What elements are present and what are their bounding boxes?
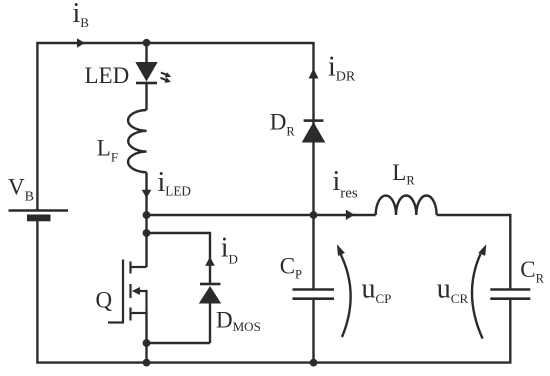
wire D_MOS branch top [147, 233, 211, 257]
mosfet channel segment bottom [129, 308, 131, 321]
wire inductor to node [145, 172, 147, 215]
battery V_B [9, 211, 69, 222]
inductor L_R coil [376, 195, 437, 215]
voltage arrow u_CR arrowhead [478, 244, 486, 256]
capacitor C_P [293, 290, 335, 299]
inductor L_F coil [128, 110, 146, 172]
mosfet body arrow [132, 287, 140, 295]
voltage arrow u_CP arrowhead [337, 244, 345, 256]
LED light emission arrow 2 [161, 78, 171, 83]
current arrow i_B on top wire [77, 38, 85, 47]
mosfet channel segment top [129, 262, 131, 274]
svg-text:iLED: iLED [158, 167, 191, 198]
svg-text:uCP: uCP [362, 274, 392, 307]
wire D_MOS branch vertical upper [209, 257, 211, 284]
diode D_MOS triangle [199, 286, 221, 304]
junction node dot mosfet source bottom [143, 339, 151, 347]
wire node to mosfet drain [145, 215, 147, 267]
wire D_MOS branch bottom [147, 342, 211, 344]
svg-text:CP: CP [280, 254, 302, 282]
wire C_P branch lower [312, 299, 314, 363]
junction node dot top of LED branch [143, 39, 151, 47]
svg-text:ires: ires [333, 166, 358, 202]
wire D_R branch vertical [312, 42, 314, 215]
svg-text:LR: LR [392, 160, 415, 188]
wire mosfet source to bottom [145, 313, 147, 363]
mosfet gate plate [122, 260, 124, 324]
mosfet source lead [131, 312, 147, 314]
LED diode triangle [135, 62, 157, 82]
battery long plate [9, 209, 69, 211]
junction node dot bottom wire left [143, 359, 151, 367]
svg-text:iB: iB [73, 0, 90, 30]
junction node dot D_MOS tee [143, 229, 151, 237]
diode D_MOS cathode bar [200, 283, 221, 286]
svg-text:DMOS: DMOS [216, 308, 261, 335]
wire C_P branch upper [312, 215, 314, 289]
current arrow i_res on middle wire [346, 210, 355, 220]
mosfet drain lead [131, 266, 147, 268]
svg-text:LF: LF [97, 135, 118, 164]
svg-text:LED: LED [85, 63, 130, 88]
svg-text:Q: Q [96, 288, 113, 313]
svg-text:iD: iD [221, 233, 238, 267]
diode D_R triangle [302, 122, 326, 143]
wire LED to inductor [145, 83, 147, 110]
svg-text:DR: DR [270, 110, 296, 139]
mosfet channel segment middle [129, 284, 131, 298]
wire middle horizontal right of inductor + right upper [437, 215, 511, 289]
svg-text:iDR: iDR [328, 52, 356, 85]
wire middle horizontal node line [147, 214, 376, 216]
wire LED branch top [145, 43, 147, 62]
mosfet body lead [139, 291, 147, 313]
voltage arrow u_CP arc [341, 254, 351, 337]
wire left lower + bottom horizontal + right lower [37, 221, 510, 363]
transistor Q mosfet [108, 260, 147, 324]
wire left upper + top horizontal + D_R branch corner [37, 43, 313, 210]
capacitor C_R [490, 290, 530, 299]
voltage arrow u_CR arc [472, 254, 483, 339]
current arrow i_DR on D_R branch [309, 69, 319, 79]
LED light emission arrow 1 [161, 72, 171, 77]
junction node dot main node on D_R branch [310, 211, 318, 219]
svg-text:CR: CR [520, 257, 544, 285]
diode D_R cathode bar [304, 119, 324, 122]
svg-text:uCR: uCR [437, 274, 469, 306]
mosfet gate lead [108, 321, 123, 323]
current arrow i_LED on LED branch [142, 190, 152, 198]
junction node dot bottom wire right [310, 359, 318, 367]
battery short thick plate [27, 215, 51, 222]
LED diode cathode bar [136, 82, 157, 85]
svg-text:VB: VB [8, 174, 34, 204]
wire D_MOS branch vertical lower [209, 304, 211, 344]
current arrow i_D on D_MOS branch [205, 257, 215, 266]
junction node dot middle node [143, 211, 151, 219]
